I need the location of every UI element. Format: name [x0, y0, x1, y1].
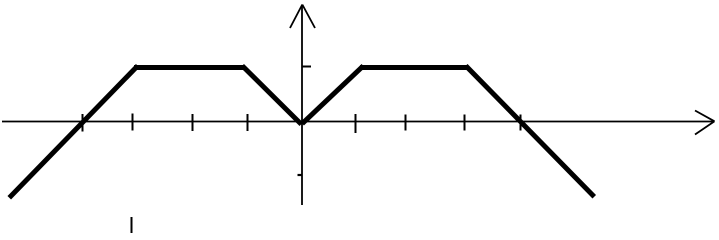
- curve segment: right falling line: [468, 68, 593, 196]
- x-axis tick at x=-3: [132, 114, 134, 131]
- curve segment: rise from origin (right V arm): [304, 68, 362, 123]
- curve segment: left rising line: [11, 68, 136, 197]
- y-axis: [301, 5, 303, 205]
- y-axis arrowhead: [290, 5, 315, 29]
- x-axis tick at x=-2: [192, 114, 194, 131]
- x-axis tick at x=4: [520, 115, 522, 131]
- stray vertical mark bottom-left: [131, 217, 133, 233]
- y-axis tick at y=-1: [298, 174, 303, 176]
- x-axis tick at x=-1: [247, 114, 249, 131]
- x-axis tick at x=2: [405, 115, 407, 131]
- x-axis: [2, 121, 713, 123]
- x-axis tick at x=-4: [82, 114, 84, 132]
- x-axis arrowhead: [695, 111, 715, 135]
- curve segment: right plateau: [360, 65, 468, 70]
- x-axis tick at x=3: [464, 115, 466, 131]
- curve segment: left plateau: [134, 65, 244, 70]
- x-axis tick at x=1: [355, 114, 357, 133]
- curve segment: descent into origin (left V arm): [244, 68, 300, 123]
- y-axis tick at y=1: [302, 66, 311, 68]
